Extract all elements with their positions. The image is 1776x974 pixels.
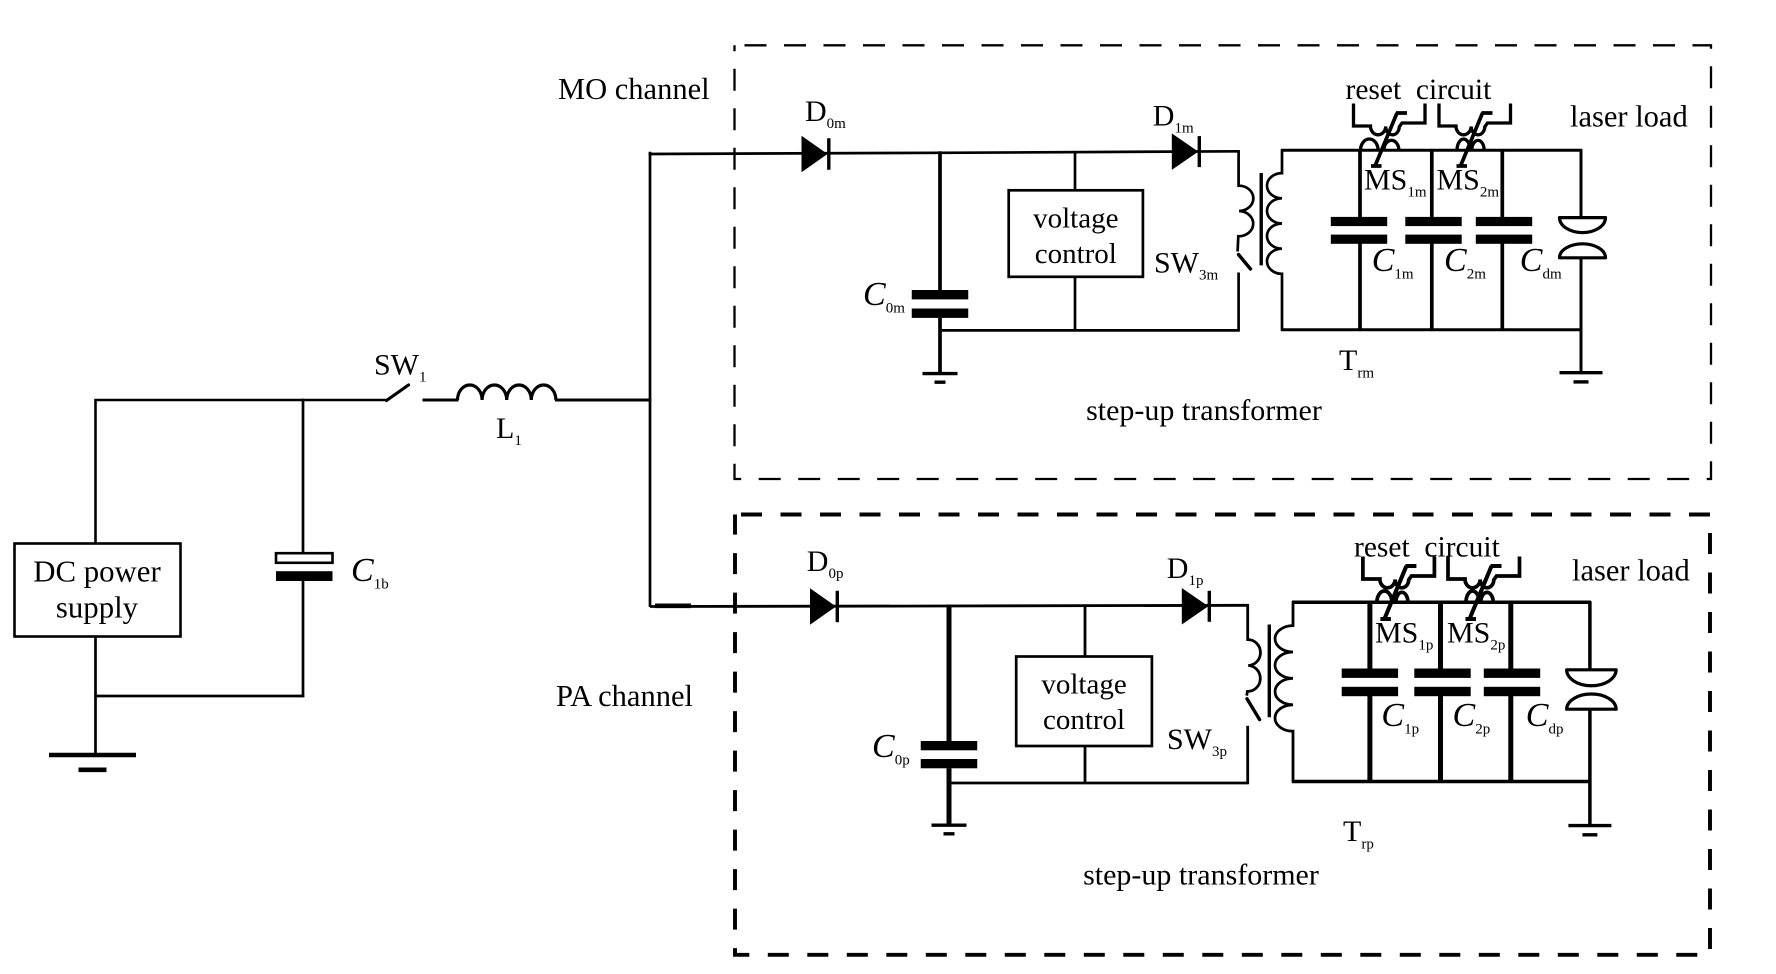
- capacitor C2p: [1414, 669, 1470, 678]
- capacitor C0p: [947, 605, 952, 742]
- svg-text:L1: L1: [496, 412, 522, 449]
- svg-text:laser load: laser load: [1570, 100, 1688, 134]
- capacitor Cdp: [1484, 669, 1540, 678]
- svg-text:Cdm: Cdm: [1520, 242, 1562, 283]
- capacitor C1p: [1342, 669, 1398, 678]
- ground (C0p): [932, 824, 967, 827]
- wire voltage-control top stem (MO): [1074, 152, 1077, 191]
- capacitor Cdm: [1476, 217, 1532, 226]
- svg-text:C2p: C2p: [1453, 697, 1491, 738]
- wire main rail (PA): [650, 605, 1249, 606]
- diode D0m: [802, 136, 828, 173]
- wire secondary top rail (PA): [1292, 601, 1591, 605]
- svg-text:SW3p: SW3p: [1167, 723, 1227, 760]
- wire branch vertical C2p top: [1438, 601, 1443, 669]
- wire primary bottom rail (PA): [949, 782, 1249, 785]
- magnetic switch MS2p: [1448, 557, 1520, 620]
- diode D0p: [810, 588, 836, 625]
- transformer T rm secondary winding: [1267, 149, 1282, 330]
- laser load (MO): [1580, 149, 1583, 217]
- wire branch vertical Cdm bottom: [1500, 243, 1504, 331]
- capacitor C1m: [1331, 217, 1387, 226]
- ground (DC supply): [49, 753, 136, 758]
- wire branch vertical C2p bottom: [1438, 695, 1443, 782]
- wire bottom return (C1b to DC supply): [94, 695, 304, 698]
- svg-text:DC power: DC power: [33, 555, 160, 589]
- svg-text:reset circuit: reset circuit: [1346, 74, 1493, 106]
- wire branch vertical Cdp bottom: [1508, 695, 1513, 782]
- wire DC supply top vertical: [94, 401, 97, 544]
- wire voltage-control bottom stem (MO): [1074, 277, 1077, 331]
- transformer T rp primary winding and switch SW3p: [1247, 604, 1261, 695]
- wire primary bottom rail (MO): [940, 329, 1240, 332]
- magnetic switch MS2m: [1439, 104, 1511, 167]
- svg-text:SW1: SW1: [374, 349, 427, 386]
- wire main rail (MO): [649, 151, 1240, 154]
- svg-text:Trp: Trp: [1343, 815, 1374, 853]
- wire secondary bottom rail (MO): [1281, 328, 1582, 331]
- svg-text:supply: supply: [56, 591, 139, 625]
- transformer T rp secondary winding: [1275, 601, 1293, 782]
- capacitor C0m: [938, 151, 942, 290]
- svg-text:SW3m: SW3m: [1154, 247, 1219, 284]
- ground (laser load MO): [1560, 371, 1603, 374]
- wire secondary bottom rail (PA): [1292, 780, 1591, 784]
- svg-text:MS1p: MS1p: [1375, 617, 1433, 654]
- MO channel dashed border: [735, 45, 1712, 479]
- transformer T rm core: [1259, 173, 1262, 265]
- transformer T rp core: [1268, 625, 1271, 718]
- wire voltage-control top stem (PA): [1084, 605, 1087, 657]
- magnetic switch MS1p: [1363, 557, 1435, 620]
- svg-text:step-up transformer: step-up transformer: [1083, 859, 1319, 892]
- voltage control box (PA): [1016, 657, 1152, 747]
- wire splitter vertical (node A): [649, 152, 652, 607]
- wire DC supply bottom vertical: [94, 637, 97, 756]
- svg-text:MS2m: MS2m: [1437, 164, 1500, 201]
- svg-text:MO channel: MO channel: [558, 72, 710, 106]
- capacitor C2m: [1405, 217, 1461, 226]
- wire branch vertical C1m top: [1358, 149, 1362, 218]
- wire L1 to splitter node: [555, 399, 651, 402]
- DC power supply box: [15, 544, 181, 637]
- svg-text:MS2p: MS2p: [1447, 617, 1505, 654]
- voltage control box (MO): [1009, 190, 1143, 276]
- svg-text:Cdp: Cdp: [1526, 697, 1564, 738]
- diode D1m: [1172, 133, 1199, 170]
- ground (laser load PA): [1568, 824, 1611, 827]
- wire SW1 to L1: [423, 399, 459, 402]
- wire branch vertical Cdm top: [1500, 149, 1504, 218]
- svg-text:PA channel: PA channel: [556, 679, 693, 713]
- svg-text:laser load: laser load: [1572, 554, 1690, 588]
- svg-text:control: control: [1035, 238, 1117, 270]
- wire branch vertical C1m bottom: [1358, 243, 1362, 331]
- wire branch vertical C2m top: [1430, 149, 1434, 218]
- PA channel dashed border: [735, 515, 1710, 955]
- wire branch vertical C2m bottom: [1430, 243, 1434, 331]
- laser load (PA): [1588, 601, 1592, 670]
- svg-text:Trm: Trm: [1339, 344, 1374, 382]
- switch SW1 blade: [387, 385, 409, 401]
- svg-text:C1b: C1b: [351, 552, 389, 593]
- svg-text:C1p: C1p: [1381, 697, 1419, 738]
- magnetic switch MS1m: [1354, 104, 1426, 167]
- wire secondary top rail (MO): [1281, 149, 1582, 152]
- wire top horizontal to SW1: [94, 399, 387, 402]
- svg-text:voltage: voltage: [1033, 202, 1118, 234]
- wire branch vertical C1p top: [1367, 601, 1372, 669]
- wire branch vertical Cdp top: [1508, 601, 1513, 669]
- svg-text:D1p: D1p: [1167, 552, 1204, 589]
- svg-text:D1m: D1m: [1153, 100, 1194, 137]
- svg-text:D0m: D0m: [805, 95, 846, 132]
- svg-text:D0p: D0p: [807, 545, 844, 582]
- wire voltage-control bottom stem (PA): [1084, 746, 1087, 783]
- ground (C0m): [923, 372, 958, 375]
- svg-text:control: control: [1043, 704, 1125, 736]
- svg-text:C0m: C0m: [863, 276, 905, 317]
- inductor L1: [458, 385, 556, 400]
- svg-text:step-up transformer: step-up transformer: [1086, 394, 1322, 427]
- capacitor C1b: [302, 399, 305, 553]
- transformer T rm primary winding and switch SW3m: [1238, 150, 1254, 251]
- svg-text:C1m: C1m: [1372, 242, 1414, 283]
- wire junction thick segment (PA): [655, 603, 691, 608]
- svg-text:voltage: voltage: [1041, 669, 1126, 701]
- diode D1p: [1182, 588, 1209, 625]
- wire branch vertical C1p bottom: [1367, 695, 1372, 782]
- svg-text:C0p: C0p: [872, 728, 910, 769]
- svg-text:MS1m: MS1m: [1364, 164, 1427, 201]
- svg-text:reset circuit: reset circuit: [1354, 532, 1501, 564]
- svg-text:C2m: C2m: [1444, 242, 1486, 283]
